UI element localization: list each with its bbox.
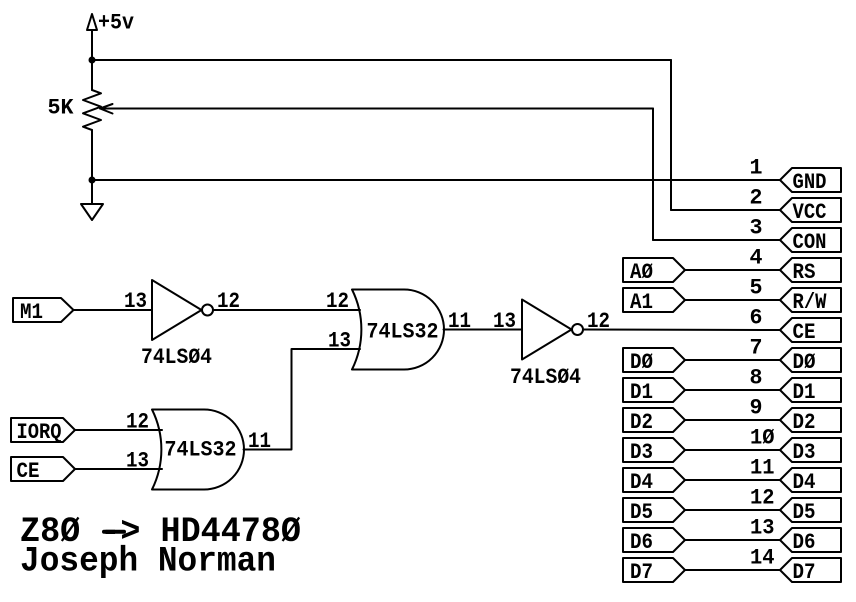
svg-text:D5: D5 (630, 500, 653, 525)
svg-text:74LSØ4: 74LSØ4 (510, 365, 581, 390)
label D4 flag (623, 468, 685, 495)
svg-text:11: 11 (750, 456, 775, 481)
svg-text:D7: D7 (793, 560, 816, 585)
svg-text:AØ: AØ (630, 260, 653, 285)
svg-text:1: 1 (750, 156, 763, 181)
svg-text:CON: CON (793, 230, 827, 255)
label A1 flag (623, 288, 685, 315)
connector J1 pin 7 D0 flag (750, 336, 842, 376)
connector J1 pin 11 D4 flag (750, 456, 841, 496)
connector J1 pin 12 D5 flag (750, 486, 841, 526)
svg-text:M1: M1 (20, 300, 43, 325)
label D5 flag (623, 498, 685, 525)
power +5V symbol (87, 11, 134, 36)
svg-text:4: 4 (750, 246, 763, 271)
svg-text:7: 7 (750, 336, 763, 361)
connector J1 pin 5 R/W flag (750, 276, 842, 316)
wire U2B output riser to U2A input (244, 349, 361, 450)
junction at VCC tap (89, 57, 96, 64)
svg-text:D3: D3 (793, 440, 816, 465)
svg-text:IORQ: IORQ (17, 420, 62, 445)
svg-text:5: 5 (750, 276, 763, 301)
wire M1 to U1A input (74, 309, 153, 311)
svg-text:CE: CE (793, 320, 816, 345)
wire U2A output to U1B input (444, 329, 523, 331)
label D1 flag (623, 378, 685, 405)
svg-text:13: 13 (750, 516, 775, 541)
connector J1 pin 14 D7 flag (750, 546, 841, 586)
label D0 flag (623, 348, 685, 375)
wire VCC horizontal run (92, 59, 671, 61)
ground (81, 204, 103, 220)
label D6 flag (623, 528, 685, 555)
wire D1 (685, 389, 780, 391)
wire D2 (685, 419, 780, 421)
svg-text:D2: D2 (793, 410, 816, 435)
svg-text:DØ: DØ (793, 350, 816, 375)
svg-text:+5v: +5v (98, 11, 134, 36)
svg-text:5K: 5K (48, 96, 75, 121)
connector J1 pin 2 VCC flag (750, 186, 842, 226)
svg-text:9: 9 (750, 396, 763, 421)
connector J1 pin 9 D2 flag (750, 396, 842, 436)
wire A0 to RS (685, 269, 780, 271)
svg-text:74LSØ4: 74LSØ4 (141, 345, 212, 370)
wire IORQ to U2B input (75, 429, 162, 431)
global label CE (11, 457, 75, 484)
svg-text:D6: D6 (630, 530, 653, 555)
wire D5 (685, 509, 780, 511)
svg-text:D1: D1 (793, 380, 816, 405)
wire U1B output to CE pin 6 (583, 329, 780, 332)
potentiometer wiper arrow (100, 104, 113, 114)
svg-text:DØ: DØ (630, 350, 653, 375)
svg-text:12: 12 (326, 289, 349, 314)
svg-text:8: 8 (750, 366, 763, 391)
connector J1 pin 8 D1 flag (750, 366, 842, 406)
svg-text:6: 6 (750, 306, 763, 331)
wire VCC vertical drop (670, 60, 672, 210)
svg-text:13: 13 (124, 289, 147, 314)
wire D7 (685, 569, 780, 571)
svg-text:Joseph Norman: Joseph Norman (20, 542, 276, 582)
svg-text:D3: D3 (630, 440, 653, 465)
svg-text:A1: A1 (630, 290, 653, 315)
svg-text:2: 2 (750, 186, 763, 211)
svg-text:74LS32: 74LS32 (367, 320, 439, 345)
svg-text:14: 14 (750, 546, 775, 571)
svg-text:13: 13 (126, 449, 149, 474)
connector J1 pin 1 GND flag (750, 156, 842, 196)
wire +5V to resistor top (91, 30, 93, 90)
svg-text:13: 13 (493, 309, 516, 334)
connector J1 pin 13 D6 flag (750, 516, 841, 556)
title text (20, 512, 301, 582)
svg-text:D4: D4 (793, 470, 816, 495)
svg-text:D1: D1 (630, 380, 653, 405)
label D3 flag (623, 438, 685, 465)
wire VCC to pin 2 (671, 209, 780, 211)
potentiometer RV1 5K (48, 90, 102, 130)
svg-text:D5: D5 (793, 500, 816, 525)
wire GND to pin 1 (92, 179, 780, 181)
wire D6 (685, 539, 780, 541)
svg-text:D7: D7 (630, 560, 653, 585)
connector J1 pin 6 CE flag (750, 306, 842, 346)
svg-text:1Ø: 1Ø (750, 426, 775, 451)
connector J1 pin 3 CON flag (750, 216, 842, 256)
label D2 flag (623, 408, 685, 435)
connector J1 pin 4 RS flag (750, 246, 842, 286)
svg-text:R/W: R/W (793, 290, 828, 315)
svg-text:12: 12 (750, 486, 775, 511)
inverter U1B 74LS04 (510, 300, 583, 391)
junction at GND tap (89, 177, 96, 184)
svg-text:D6: D6 (793, 530, 816, 555)
svg-text:CE: CE (17, 459, 40, 484)
wire A1 to R/W (685, 299, 780, 301)
global label M1 (13, 298, 74, 325)
wire D0 (685, 359, 780, 361)
svg-text:VCC: VCC (793, 200, 827, 225)
global label IORQ (11, 418, 75, 445)
connector J1 pin 10 D3 flag (750, 426, 841, 466)
svg-text:GND: GND (793, 170, 827, 195)
wire D3 (685, 449, 780, 451)
wire CON to pin 3 (653, 239, 780, 241)
svg-text:D2: D2 (630, 410, 653, 435)
label D7 flag (623, 558, 685, 585)
svg-text:12: 12 (126, 410, 149, 435)
svg-text:RS: RS (793, 260, 816, 285)
wire CE to U2B input (75, 468, 162, 470)
inverter U1A 74LS04 (141, 280, 213, 370)
wire D4 (685, 479, 780, 481)
or-gate U2B 74LS32 (152, 410, 244, 490)
wire resistor bottom to ground (91, 130, 93, 204)
svg-text:3: 3 (750, 216, 763, 241)
svg-text:D4: D4 (630, 470, 653, 495)
svg-text:74LS32: 74LS32 (165, 438, 237, 463)
wire CON vertical drop (652, 109, 654, 241)
label A0 flag (623, 258, 685, 285)
or-gate U2A 74LS32 (352, 290, 444, 370)
wire U1A output to U2A input (213, 309, 360, 311)
wire wiper to CON drop (100, 108, 653, 110)
